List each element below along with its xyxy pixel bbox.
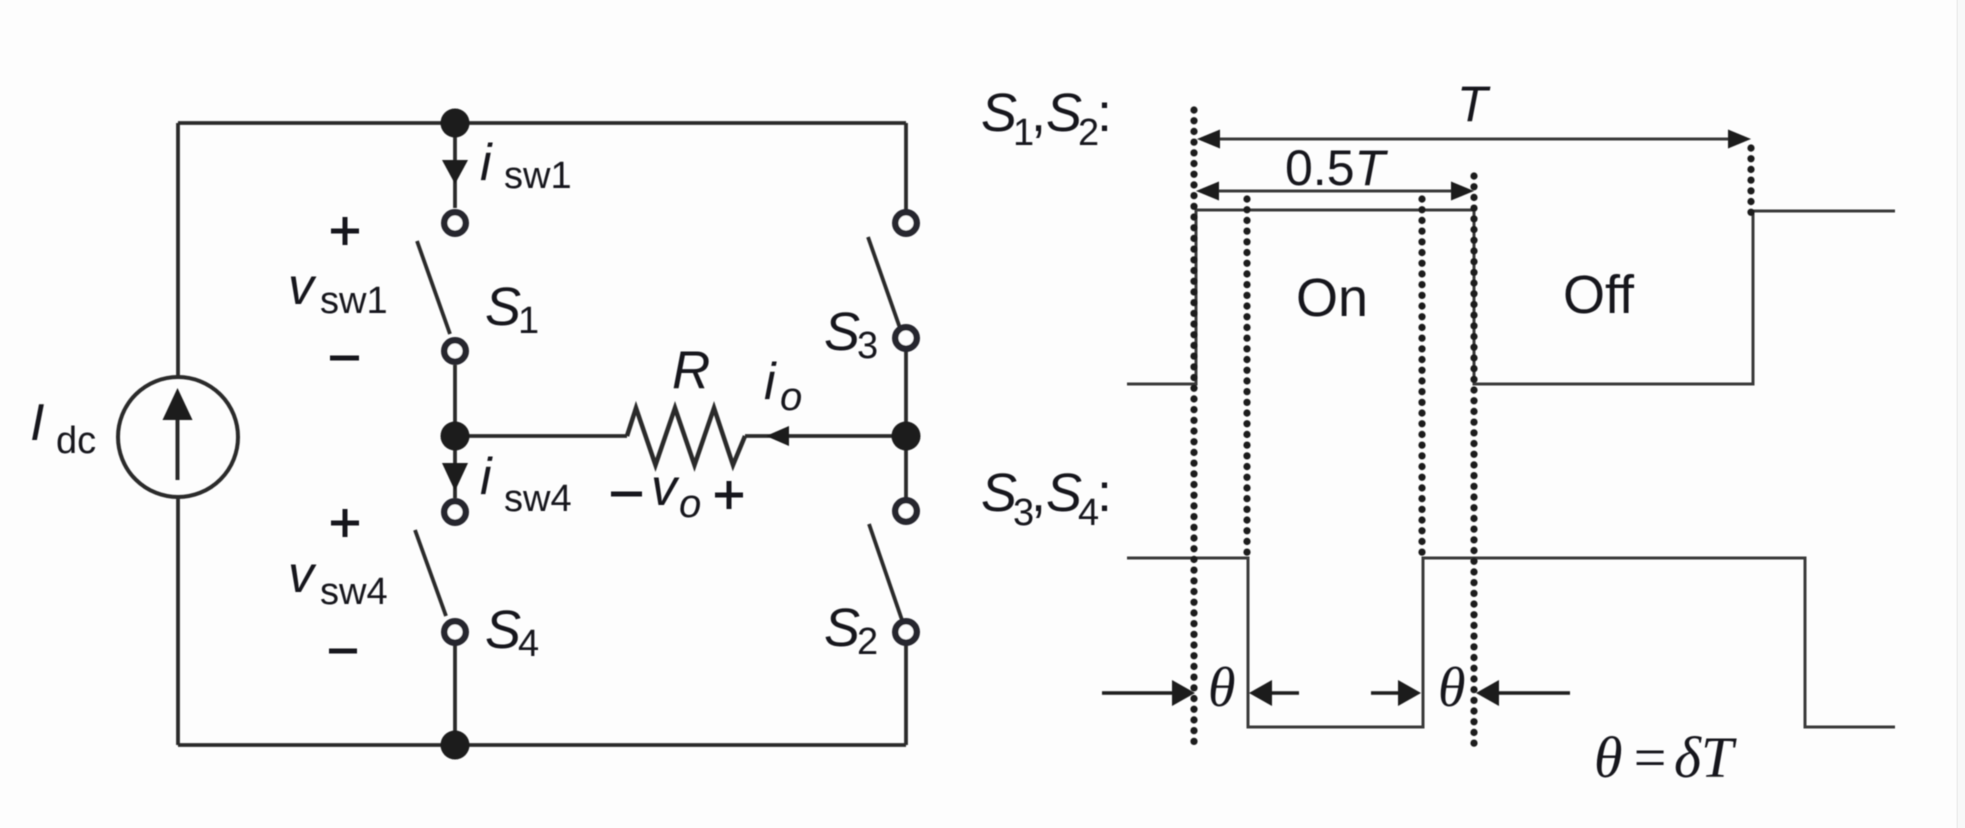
svg-text:sw1: sw1 [320, 280, 388, 322]
svg-text:,: , [1031, 463, 1046, 523]
svg-text:=: = [1630, 725, 1669, 790]
svg-text:i: i [480, 448, 493, 506]
svg-text:S: S [981, 463, 1017, 523]
svg-text:S: S [485, 277, 521, 337]
svg-text:2: 2 [1078, 112, 1099, 154]
svg-text:o: o [679, 482, 701, 526]
svg-text:v: v [288, 258, 317, 316]
svg-text:3: 3 [857, 325, 878, 367]
svg-text:R: R [672, 341, 710, 400]
svg-text:T: T [1457, 76, 1491, 132]
svg-text:,: , [1031, 83, 1046, 143]
svg-text:4: 4 [518, 623, 539, 665]
svg-text:S: S [485, 600, 521, 660]
svg-text:v: v [651, 459, 680, 517]
svg-text:1: 1 [518, 300, 539, 342]
svg-text:i: i [764, 353, 777, 411]
svg-text:θ: θ [1208, 657, 1236, 719]
svg-text:sw1: sw1 [504, 155, 572, 197]
svg-text:sw4: sw4 [504, 478, 572, 520]
svg-text:δT: δT [1674, 725, 1737, 790]
svg-text:θ: θ [1438, 657, 1466, 719]
svg-text:v: v [288, 546, 317, 604]
svg-text::: : [1097, 83, 1112, 143]
svg-text:dc: dc [56, 420, 96, 462]
svg-text::: : [1097, 463, 1112, 523]
svg-text:I: I [30, 394, 44, 452]
svg-text:S: S [1046, 83, 1082, 143]
svg-text:o: o [780, 375, 802, 419]
svg-text:i: i [480, 134, 493, 192]
svg-text:S: S [981, 83, 1017, 143]
svg-text:On: On [1296, 268, 1368, 328]
svg-text:S: S [824, 302, 860, 362]
svg-text:4: 4 [1078, 492, 1099, 534]
svg-text:S: S [824, 598, 860, 658]
svg-text:S: S [1046, 463, 1082, 523]
svg-text:θ: θ [1594, 725, 1623, 790]
svg-text:Off: Off [1563, 265, 1635, 325]
svg-text:sw4: sw4 [320, 571, 388, 613]
svg-text:0.5T: 0.5T [1285, 140, 1389, 196]
svg-text:2: 2 [857, 621, 878, 663]
